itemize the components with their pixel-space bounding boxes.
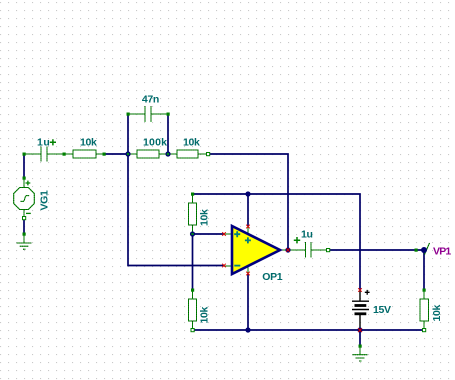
svg-text:10k: 10k [199, 209, 211, 226]
svg-text:100k: 100k [143, 137, 167, 149]
svg-text:10k: 10k [199, 307, 211, 324]
svg-text:47n: 47n [142, 94, 159, 106]
svg-text:1u: 1u [37, 137, 50, 149]
svg-text:10k: 10k [431, 305, 443, 322]
svg-text:VP1: VP1 [433, 245, 451, 257]
svg-text:OP1: OP1 [262, 271, 282, 283]
svg-text:VG1: VG1 [39, 190, 51, 210]
svg-text:10k: 10k [80, 137, 97, 149]
svg-text:15V: 15V [373, 304, 391, 316]
svg-text:10k: 10k [183, 137, 200, 149]
svg-text:1u: 1u [301, 228, 313, 240]
